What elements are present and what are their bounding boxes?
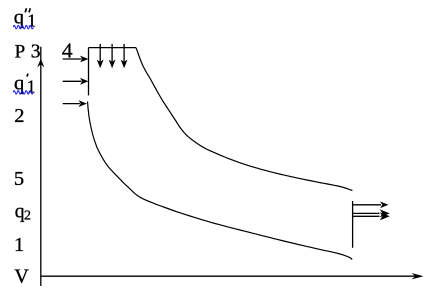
q1' arrow 2 (into isochore, middle) [63,78,89,85]
q1'' down arrow 1 (onto isobar) [97,44,104,68]
isobar 3-4 wire [89,47,137,49]
q1' arrow 1 (into isochore, top) [63,56,89,63]
svg-text:5: 5 [14,168,24,190]
label q''1 (heat input q1 double-prime) [14,7,36,31]
grammar squiggle under q'1 [13,91,33,94]
svg-text:V: V [14,266,29,288]
adiabat 4-5 expansion curve [136,48,352,191]
grammar squiggle under q''1 [13,25,33,28]
q2 out arrow 1 (top small) [353,202,389,209]
P axis arrowhead [37,59,44,68]
q2 out arrow 2 (double, upper line) [353,209,390,217]
svg-text:2: 2 [14,105,24,127]
V axis line [41,275,417,277]
q1'' down arrow 3 (onto isobar) [121,44,128,68]
svg-text:2: 2 [24,208,31,223]
q1' arrow 3 (into point 2, bottom) [63,100,87,107]
label q'1 (heat input q1 prime) [14,73,36,97]
V axis arrowhead [412,273,424,279]
q2 out arrow 3 (double, lower line) [353,212,390,220]
svg-text:P: P [15,42,26,63]
isochore 5-1 wire (heat rejection line) [352,201,354,248]
label q2 (heat rejected) [15,202,31,224]
isochore 2-3 wire [88,48,90,96]
adiabat 1-2 compression curve [88,102,353,260]
svg-text:1: 1 [14,234,24,256]
q1'' down arrow 2 (onto isobar) [109,44,116,68]
svg-text:3: 3 [31,42,41,63]
P axis line [40,47,42,286]
